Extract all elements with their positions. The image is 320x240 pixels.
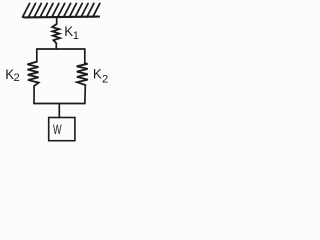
ceiling fixed support baseline: [24, 16, 99, 19]
spring K2 right: [77, 63, 88, 85]
spring K1: [52, 24, 60, 43]
label K2 right: [93, 66, 108, 85]
svg-text:K: K: [93, 66, 102, 81]
wire spring K1 to top bar: [55, 43, 57, 49]
wire spring K2 left to bottom bar: [33, 86, 35, 104]
wire ceiling to spring K1: [56, 17, 58, 24]
wire bottom bar to weight: [58, 104, 60, 118]
wire top bar to spring K2 right: [84, 49, 86, 63]
wire top bar to spring K2 left: [36, 49, 38, 62]
ceiling hatch strokes: [23, 3, 100, 17]
top bar wire: [37, 48, 85, 50]
bottom bar wire: [34, 103, 85, 105]
weight box W: [49, 118, 75, 141]
svg-text:W: W: [53, 121, 62, 138]
svg-text:1: 1: [73, 30, 79, 42]
wire spring K2 right to bottom bar: [84, 85, 86, 104]
label K1: [64, 24, 79, 42]
svg-text:2: 2: [102, 73, 108, 85]
label K2 left: [5, 67, 19, 84]
spring K2 left: [27, 62, 38, 86]
svg-text:2: 2: [14, 72, 20, 84]
